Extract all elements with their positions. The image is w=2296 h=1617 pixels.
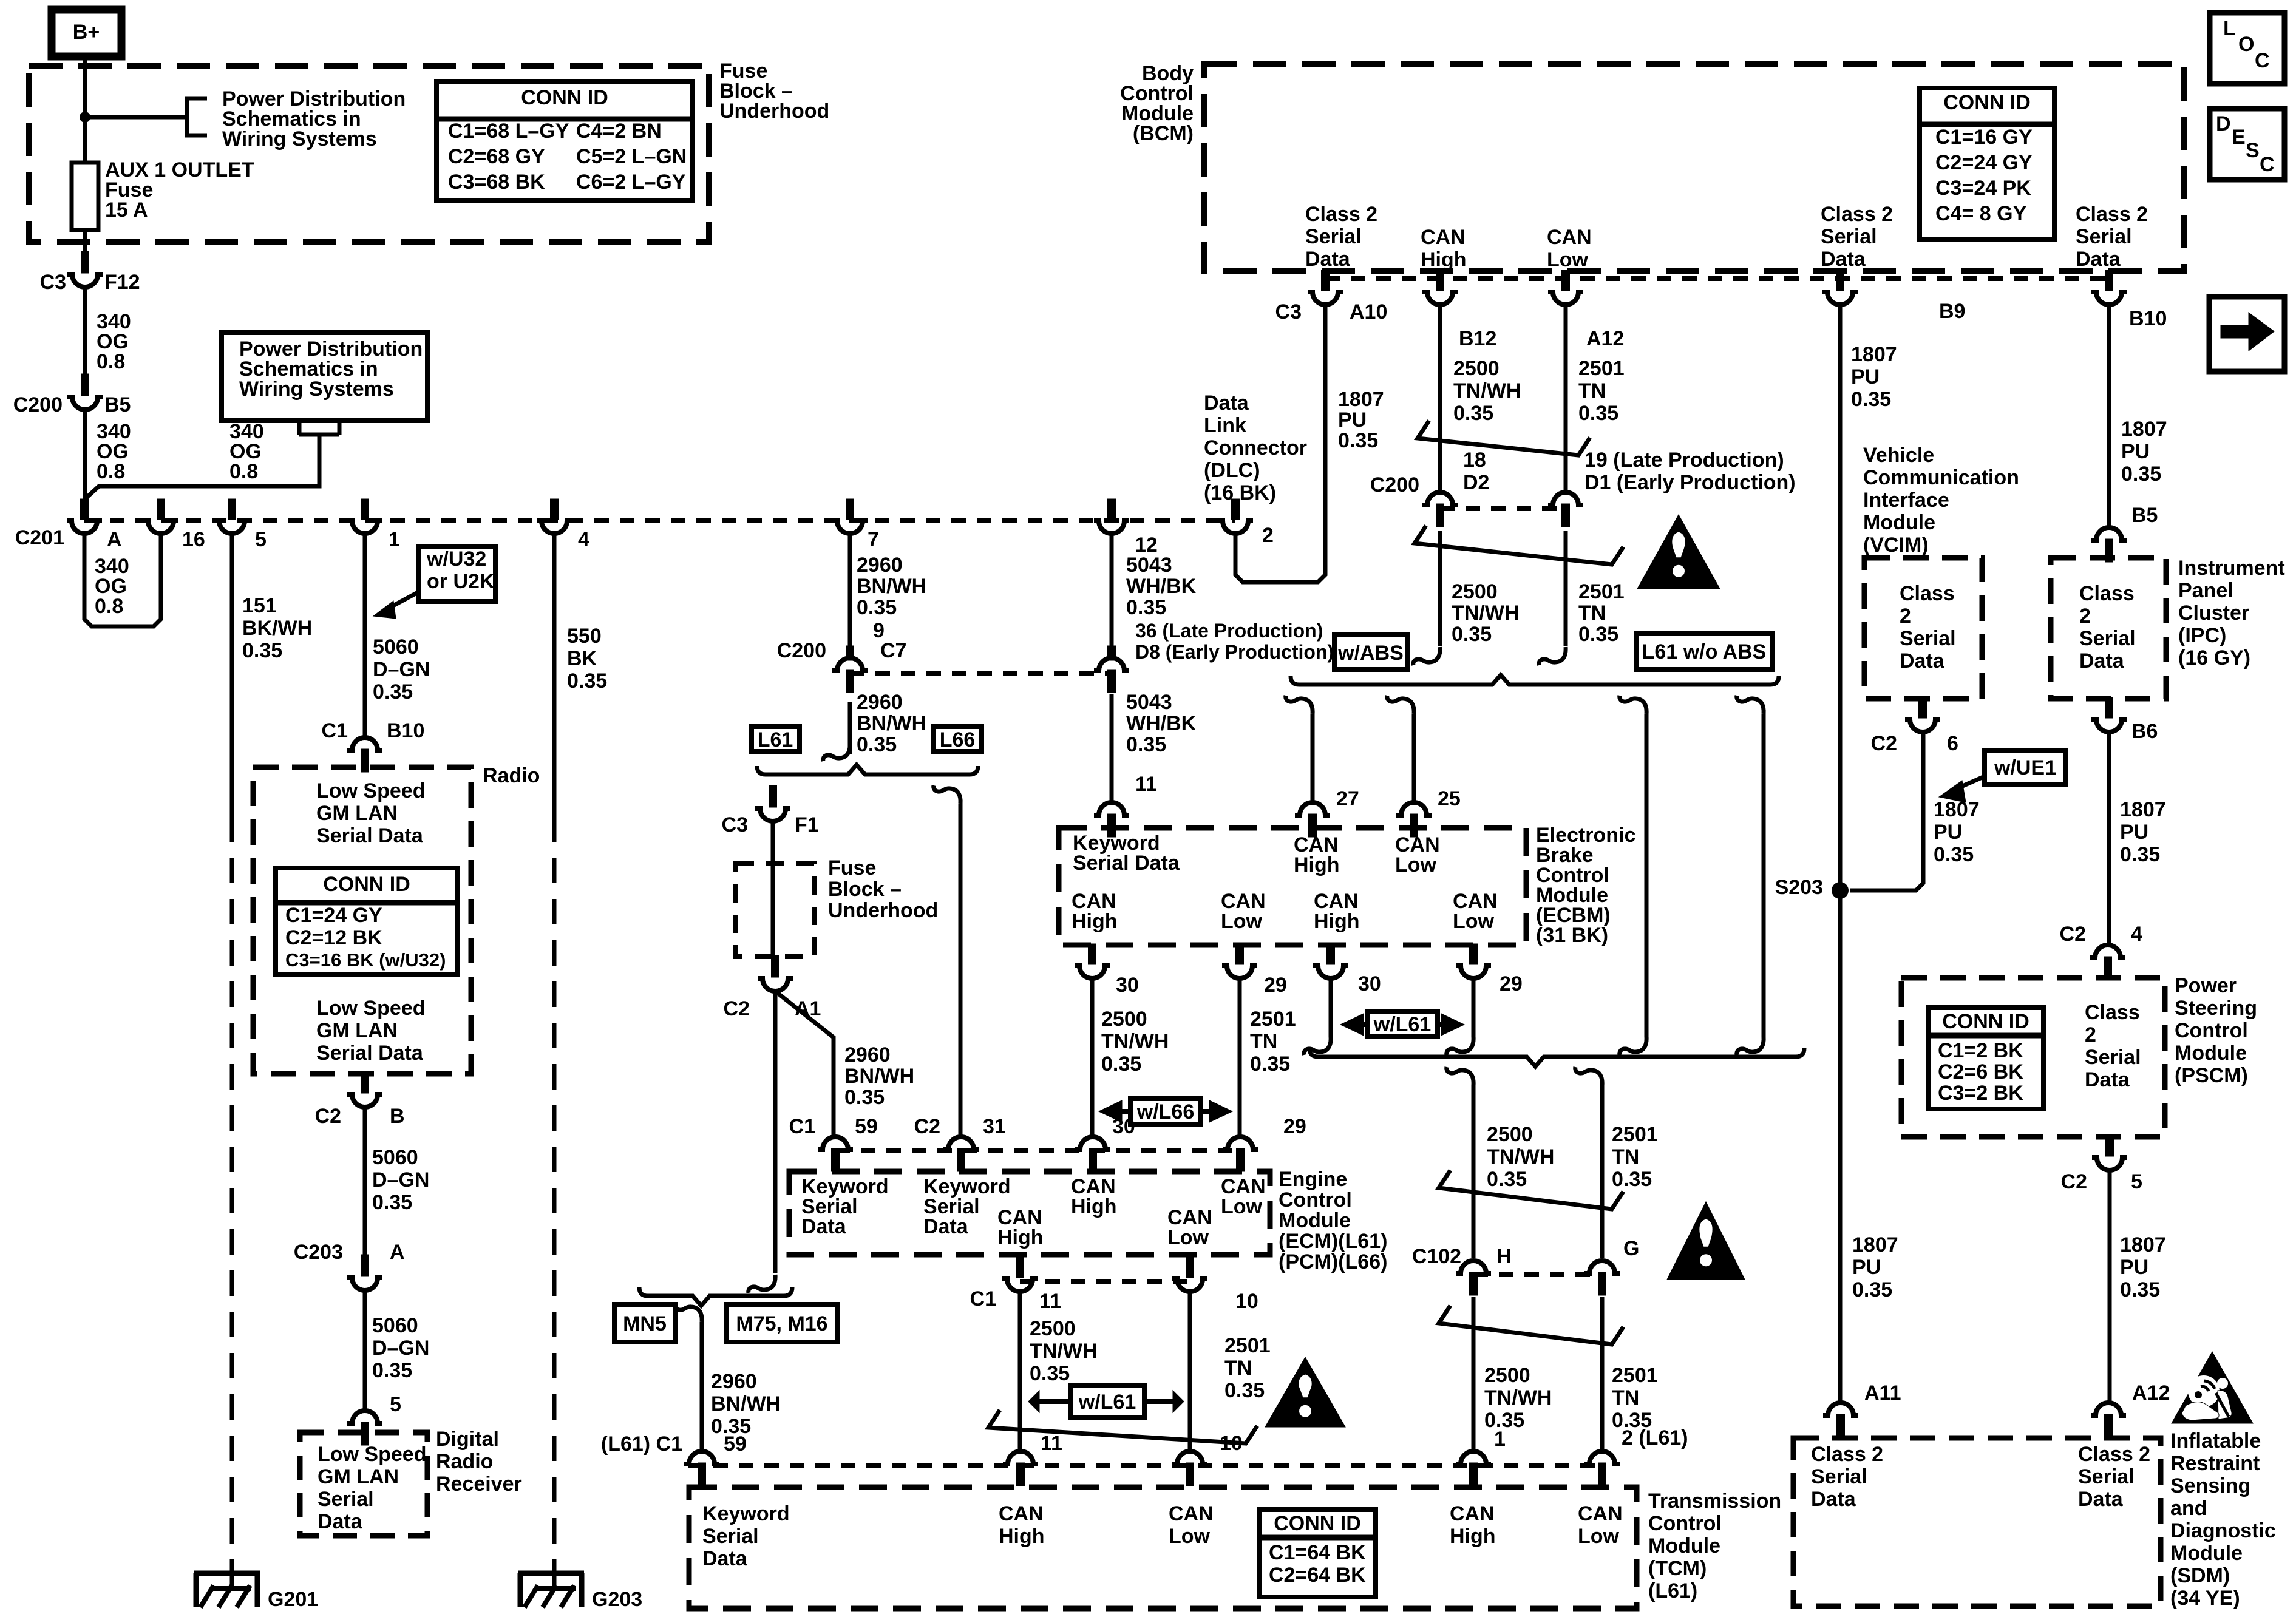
svg-text:2 (L61): 2 (L61) [1622,1426,1688,1449]
wire B+ to fuse [83,56,87,163]
connector TCM C1 59 [684,1451,719,1486]
svg-text:6: 6 [1947,732,1958,755]
svg-text:29: 29 [1500,972,1523,995]
svg-text:A11: A11 [1864,1381,1901,1405]
svg-text:C2=12 BK: C2=12 BK [285,926,382,949]
wire ECM 11 to TCM [1018,1292,1022,1450]
svg-text:19 (Late Production)D1 (Early: 19 (Late Production)D1 (Early Production… [1584,449,1796,494]
w/U32 or U2K option box [419,546,495,602]
connector 4 [537,499,572,534]
svg-text:C7: C7 [880,639,906,662]
wire ECBM 29 right drop [1472,978,1476,1037]
wire DLC 2 to BCM A10 1807 PU [1235,305,1325,582]
connector TCM 11 [1003,1451,1038,1486]
connector 16 [143,499,178,534]
svg-text:B5: B5 [2131,504,2158,527]
wire A1 to MN5 brace [773,991,778,1273]
svg-text:H: H [1496,1245,1512,1268]
engine control module dashed box [789,1171,1270,1255]
ground G201 [230,1566,234,1591]
svg-text:CANHigh: CANHigh [999,1502,1045,1548]
svg-text:A12: A12 [2132,1381,2170,1405]
svg-text:CANHigh: CANHigh [1450,1502,1496,1548]
wire H to C102 [1472,1085,1476,1258]
digital radio receiver dashed box [300,1432,427,1536]
svg-text:B9: B9 [1939,300,1965,323]
connector TCM 1 [1456,1451,1491,1486]
svg-text:10: 10 [1235,1290,1258,1313]
svg-text:C4= 8 GY: C4= 8 GY [1935,202,2027,225]
wire 2960 below C7 [848,702,852,754]
wire L66 drop to ECM 31 [959,804,963,1137]
svg-text:C3=68 BK: C3=68 BK [448,171,545,194]
arrow w/U32 to wire [389,592,419,608]
fuse block underhood dashed box [29,66,709,242]
CONN ID table TCM [1259,1510,1376,1597]
hook wire end above L61 L66 brace [823,743,850,761]
connector C2 A1 [758,955,793,991]
wire G below C102 to TCM [1600,1297,1605,1450]
power distribution schematics box [222,333,427,421]
M75 M16 option box [727,1304,837,1342]
connector C102 H [1456,1261,1491,1295]
L61 w/o ABS option box [1636,633,1773,670]
svg-text:E: E [2232,126,2246,149]
svg-text:A12: A12 [1586,327,1624,350]
wire 2960 BN/WH from bus to C7 [848,534,852,646]
hook 2501 wire end above brace [1539,647,1566,665]
transmission control module dashed box [689,1487,1637,1609]
svg-text:C2: C2 [2061,1170,2087,1193]
C200 bus dashed C7 to D8 [850,671,1112,676]
svg-text:C2: C2 [724,997,750,1020]
L61 option box [752,727,800,751]
svg-text:C2: C2 [2060,923,2086,946]
VCIM dashed box [1864,558,1982,699]
svg-text:B12: B12 [1459,327,1496,350]
L66 option box [934,727,982,751]
svg-text:B10: B10 [387,719,424,742]
svg-text:C5=2 L–GN: C5=2 L–GN [576,145,687,168]
svg-text:L61 w/o ABS: L61 w/o ABS [1642,640,1767,663]
w/L61 arrow option ECM [1071,1385,1144,1418]
svg-text:C1=24 GY: C1=24 GY [285,904,382,927]
svg-text:F1: F1 [795,813,819,836]
svg-text:11: 11 [1041,1432,1062,1455]
w/UE1 option box [1985,750,2066,784]
wire 5043 below D8 to ECBM 11 [1110,694,1114,802]
wire junction to schematics bracket [85,115,187,120]
svg-text:CANLow: CANLow [1578,1502,1623,1548]
warning triangle near G [1667,1202,1745,1280]
svg-text:w/ABS: w/ABS [1337,642,1404,665]
svg-text:C2: C2 [1871,732,1897,755]
electronic brake control module dashed box [1059,828,1526,945]
svg-text:CONN ID: CONN ID [1274,1512,1361,1535]
radio dashed box [253,767,471,1074]
wire 5043 WH/BK bus to D8 [1110,534,1114,646]
svg-text:36 (Late Production)D8 (Early: 36 (Late Production)D8 (Early Production… [1135,620,1334,663]
svg-text:A: A [390,1241,405,1264]
airbag warning triangle [2172,1352,2253,1423]
svg-text:C1: C1 [970,1287,996,1310]
connector ECBM 29 bottom [1222,944,1257,978]
connector C2 B below radio [347,1073,382,1107]
svg-text:C200: C200 [1370,473,1419,497]
wire 2500 below D2 [1438,531,1442,646]
svg-text:4: 4 [578,528,589,551]
body control module BCM dashed box [1204,64,2184,271]
B+ battery feed box [52,10,121,56]
twisted pair slash ECM to TCM [988,1410,1257,1443]
wire 340 OG C3 to C200 [83,287,87,374]
wire drop to ECBM pin 27 [1311,714,1315,802]
CONN ID table radio [276,868,458,974]
wire 550 BK dashed part to G203 [552,816,557,1566]
svg-text:CONN ID: CONN ID [1942,1010,2029,1033]
svg-text:CANHigh: CANHigh [1072,890,1118,933]
wire 5060 D-GN to radio [363,534,367,738]
wire keyword serial data to TCM C1 [700,1322,704,1450]
connector SDM A12 [2091,1403,2126,1437]
svg-text:C200: C200 [777,639,826,662]
wire C2 5 to SDM A12 [2108,1170,2112,1403]
twisted pair slash above C102 [1439,1170,1623,1209]
CONN ID table BCM [1920,88,2054,239]
w/ABS option box [1334,635,1408,670]
svg-text:w/L61: w/L61 [1078,1391,1136,1414]
svg-text:CONN ID: CONN ID [323,873,410,896]
svg-text:C2: C2 [914,1115,940,1138]
svg-text:C2: C2 [315,1105,341,1128]
svg-text:C1=68 L–GY: C1=68 L–GY [448,120,569,143]
svg-text:L61: L61 [758,728,793,751]
svg-text:C1=16 GY: C1=16 GY [1935,126,2033,149]
connector C102 G [1584,1261,1620,1295]
wire ECM 10 to TCM [1188,1292,1192,1450]
connector C200 D2 [1422,492,1458,527]
brace ABS options [1291,675,1779,685]
svg-text:30: 30 [1116,974,1139,997]
connector PSCM C2 4 [2090,945,2125,980]
svg-text:C1=2 BK: C1=2 BK [1938,1039,2023,1062]
svg-text:11: 11 [1039,1290,1061,1313]
C200 bus dashed D2 to D1 [1440,506,1566,511]
svg-text:w/L66: w/L66 [1136,1100,1194,1124]
LOC reference box [2210,13,2284,84]
svg-text:F12: F12 [104,271,140,294]
svg-text:29: 29 [1283,1115,1306,1138]
connector C200 D1 [1548,492,1583,527]
arrow w/UE1 to wire [1958,776,1985,788]
svg-text:4: 4 [2131,923,2142,946]
svg-text:O: O [2238,33,2254,56]
wire ECBM 30 to ECM [1090,978,1095,1137]
svg-text:A: A [107,528,122,551]
hook drop H below brace [1447,1067,1473,1085]
wire 5060 D-GN radio to C203 [363,1107,367,1255]
MN5 option box [614,1304,676,1342]
svg-text:MN5: MN5 [623,1312,667,1335]
svg-text:CANLow: CANLow [1453,890,1498,933]
wire F1 through fuse block small box [771,821,775,955]
connector 5 digital radio receiver [347,1411,382,1445]
svg-text:C2=64 BK: C2=64 BK [1269,1564,1366,1587]
svg-text:G203: G203 [592,1588,642,1611]
svg-text:L66: L66 [940,728,976,751]
svg-text:S: S [2246,139,2260,162]
connector BCM A12 [1548,270,1583,305]
connector 1 [347,499,382,534]
connector ECBM 30 bottom right [1313,944,1348,978]
connector C200 B5 [67,374,103,410]
warning triangle near w/L61 [1265,1357,1345,1427]
connector C3 F1 [755,785,790,821]
svg-text:C: C [2255,49,2270,72]
hook drop to ECBM 27 [1286,696,1313,714]
ground G203 [552,1566,557,1591]
svg-text:C1=64 BK: C1=64 BK [1269,1541,1366,1564]
hook below L66 brace [934,785,960,804]
svg-text:1: 1 [1494,1428,1506,1451]
svg-text:CANLow: CANLow [1395,833,1440,876]
connector ECM 29 [1223,1137,1258,1171]
C102 bus dashed [1473,1272,1602,1277]
svg-text:30: 30 [1358,972,1381,995]
connector BCM C3 A10 [1308,270,1343,305]
brace L61 no ABS lower [1309,1048,1804,1066]
twisted pair slash below C102 [1439,1306,1623,1344]
wire 550 BK solid part [552,534,557,816]
ECM bottom bus dashed [1020,1279,1190,1284]
hook 2500 wire end above brace [1413,647,1440,665]
hook below MN5 brace [675,1304,702,1322]
fuse block small dashed box [736,864,814,957]
ECM top bus dashed [835,1148,1240,1153]
svg-text:16: 16 [182,528,205,551]
svg-text:C1: C1 [789,1115,815,1138]
svg-text:CANHigh: CANHigh [1314,890,1360,933]
hook A1 wire end above MN5 brace [749,1275,775,1293]
rail left L61 no ABS [1620,696,1646,714]
brace MN5 M75 M16 [639,1287,792,1306]
svg-text:1: 1 [389,528,400,551]
svg-text:30: 30 [1112,1115,1135,1138]
svg-text:C6=2 L–GY: C6=2 L–GY [576,171,686,194]
wire 340 OG C200 to C201 [83,410,87,500]
svg-text:59: 59 [724,1432,747,1456]
svg-text:27: 27 [1336,787,1359,810]
connector TCM 10 [1172,1451,1207,1486]
connector D8 [1094,658,1129,693]
wire ECBM 30 right drop [1329,978,1333,1037]
svg-text:C3=24 PK: C3=24 PK [1935,177,2031,200]
junction dot [80,112,90,123]
svg-text:59: 59 [855,1115,878,1138]
CONN ID table PSCM [1928,1008,2043,1109]
svg-text:18D2: 18D2 [1463,449,1489,494]
svg-text:CANLow: CANLow [1167,1206,1212,1249]
bracket to Power Distribution note [187,98,207,135]
svg-text:Radio: Radio [483,764,540,787]
svg-text:29: 29 [1264,974,1287,997]
wire 2501 A12 to D1 [1564,305,1568,492]
TCM top bus dashed [688,1463,1602,1468]
connector TCM 2 [1584,1451,1620,1486]
warning triangle near D1 [1637,515,1720,589]
bracket below power distribution box [297,421,302,435]
wire 2500 B12 to D2 [1438,305,1442,492]
connector C201 A [67,499,102,534]
connector IPC B6 [2091,697,2127,732]
svg-text:C102: C102 [1412,1245,1461,1268]
connector 5 [214,499,250,534]
hook drop G below brace [1575,1067,1602,1085]
wire 5060 D-GN C203 to digital radio [363,1290,367,1411]
rail right L61 no ABS [1737,696,1764,714]
svg-text:CANLow: CANLow [1547,226,1592,271]
svg-text:C2=6 BK: C2=6 BK [1938,1060,2023,1083]
connector VCIM C2 6 [1905,697,1940,732]
svg-text:2: 2 [1262,524,1274,547]
svg-text:C2=68 GY: C2=68 GY [448,145,545,168]
svg-text:7: 7 [868,528,879,551]
wire B6 to PSCM C2 4 [2107,732,2111,945]
w/L61 arrow option ECBM [1367,1011,1438,1037]
wire B10 to IPC B5 [2107,305,2111,527]
svg-text:B: B [390,1105,405,1128]
svg-text:A10: A10 [1350,300,1387,324]
svg-text:C3=2 BK: C3=2 BK [1938,1082,2023,1105]
connector BCM B9 [1822,270,1858,305]
svg-text:CONN ID: CONN ID [1943,91,2031,114]
svg-text:S203: S203 [1775,876,1823,899]
connector C200 C7 [832,658,868,693]
connector ECBM 29 bottom right [1456,944,1491,978]
svg-text:B10: B10 [2129,307,2167,330]
svg-text:25: 25 [1438,787,1461,810]
connector ECM 30 [1075,1137,1110,1171]
svg-text:C200: C200 [13,393,63,416]
svg-text:w/L61: w/L61 [1373,1013,1431,1036]
wire 2501 below D1 [1564,531,1568,646]
svg-text:CANHigh: CANHigh [1071,1175,1117,1218]
svg-text:B+: B+ [73,21,100,44]
connector ECM C1 11 bottom [1002,1257,1038,1292]
svg-text:CANHigh: CANHigh [1294,833,1340,876]
wire B9 class 2 serial data [1838,305,1843,1403]
svg-text:B6: B6 [2131,720,2158,743]
svg-text:L: L [2223,17,2236,40]
connector IPC B5 [2091,527,2127,562]
connector ECM C2 31 [943,1137,979,1171]
svg-text:5: 5 [2131,1170,2142,1193]
svg-text:G201: G201 [268,1588,318,1611]
w/L66 arrow option [1130,1099,1201,1124]
wire drop to ECBM pin 25 [1412,714,1416,802]
wire H below C102 to TCM [1472,1297,1476,1450]
svg-text:C2=24 GY: C2=24 GY [1935,151,2033,174]
wire fuse to C3 [83,230,87,253]
wire G to C102 [1600,1085,1605,1258]
svg-text:CANHigh: CANHigh [1421,226,1467,271]
svg-text:B5: B5 [104,393,131,416]
connector C1 B10 radio [347,737,382,772]
svg-text:10: 10 [1220,1432,1243,1455]
svg-text:M75, M16: M75, M16 [736,1312,827,1335]
svg-text:C3=16 BK (w/U32): C3=16 BK (w/U32) [285,949,446,971]
wire power distribution drop to main wire [85,435,319,499]
svg-text:(L61) C1: (L61) C1 [601,1432,682,1456]
C201 bus dashed [84,518,1235,523]
svg-text:5: 5 [255,528,267,551]
connector 7 [832,499,868,534]
connector DLC 2 [1218,499,1253,534]
wire 151 BK/WH solid part [230,534,234,816]
svg-text:C3: C3 [40,271,66,294]
svg-text:C: C [2260,153,2275,176]
connector ECBM 11 top [1094,802,1129,837]
brace L61 L66 options [757,765,978,775]
svg-text:31: 31 [983,1115,1006,1138]
svg-text:w/UE1: w/UE1 [1994,756,2056,779]
SDM dashed box [1793,1438,2161,1606]
svg-text:CANLow: CANLow [1221,890,1266,933]
connector ECBM 25 [1396,802,1432,837]
connector BCM B10 [2091,270,2127,305]
svg-text:D: D [2216,112,2231,135]
wire C2 6 to S203 [1850,732,1923,890]
CONN ID table fuse block [436,81,693,201]
svg-text:5: 5 [390,1393,401,1416]
connector C3 F12 [67,251,103,287]
connector PSCM C2 5 [2092,1136,2127,1170]
fuse AUX 1 OUTLET 15A [72,163,98,230]
connector SDM A11 [1823,1403,1858,1437]
connector ECBM 27 [1295,802,1330,837]
svg-text:CANLow: CANLow [1221,1175,1266,1218]
connector ECM C1 59 [818,1137,853,1171]
svg-text:C3: C3 [722,813,748,836]
connector ECM 10 bottom [1172,1257,1207,1292]
IPC dashed box [2051,558,2166,699]
wire 151 BK/WH dashed part to G201 [230,816,234,1566]
junction S203 [1832,882,1849,899]
svg-text:G: G [1623,1237,1639,1260]
wire ECBM 29 to ECM [1238,978,1242,1137]
svg-text:w/U32or U2K: w/U32or U2K [426,547,495,593]
connector BCM B12 [1422,270,1458,305]
svg-text:C1: C1 [322,719,348,742]
svg-text:C4=2 BN: C4=2 BN [576,120,662,143]
svg-text:C203: C203 [294,1241,343,1264]
BCM bottom bus dashed [1325,276,2109,281]
svg-text:C201: C201 [15,526,64,549]
svg-text:CANLow: CANLow [1169,1502,1214,1548]
svg-text:CONN ID: CONN ID [521,86,608,109]
svg-text:CANHigh: CANHigh [997,1206,1044,1249]
connector C203 A [347,1255,382,1290]
svg-text:C3: C3 [1275,300,1302,324]
twisted pair slash above C200 [1418,421,1590,455]
PSCM dashed box [1901,978,2165,1137]
DESC reference box [2210,109,2284,180]
arrow reference box [2209,297,2284,371]
hook drop to ECBM 25 [1387,696,1414,714]
twisted pair slash below C200 [1415,526,1623,564]
connector ECBM 30 bottom [1075,944,1110,978]
wire A1 diagonal to 59 column [775,991,834,1137]
